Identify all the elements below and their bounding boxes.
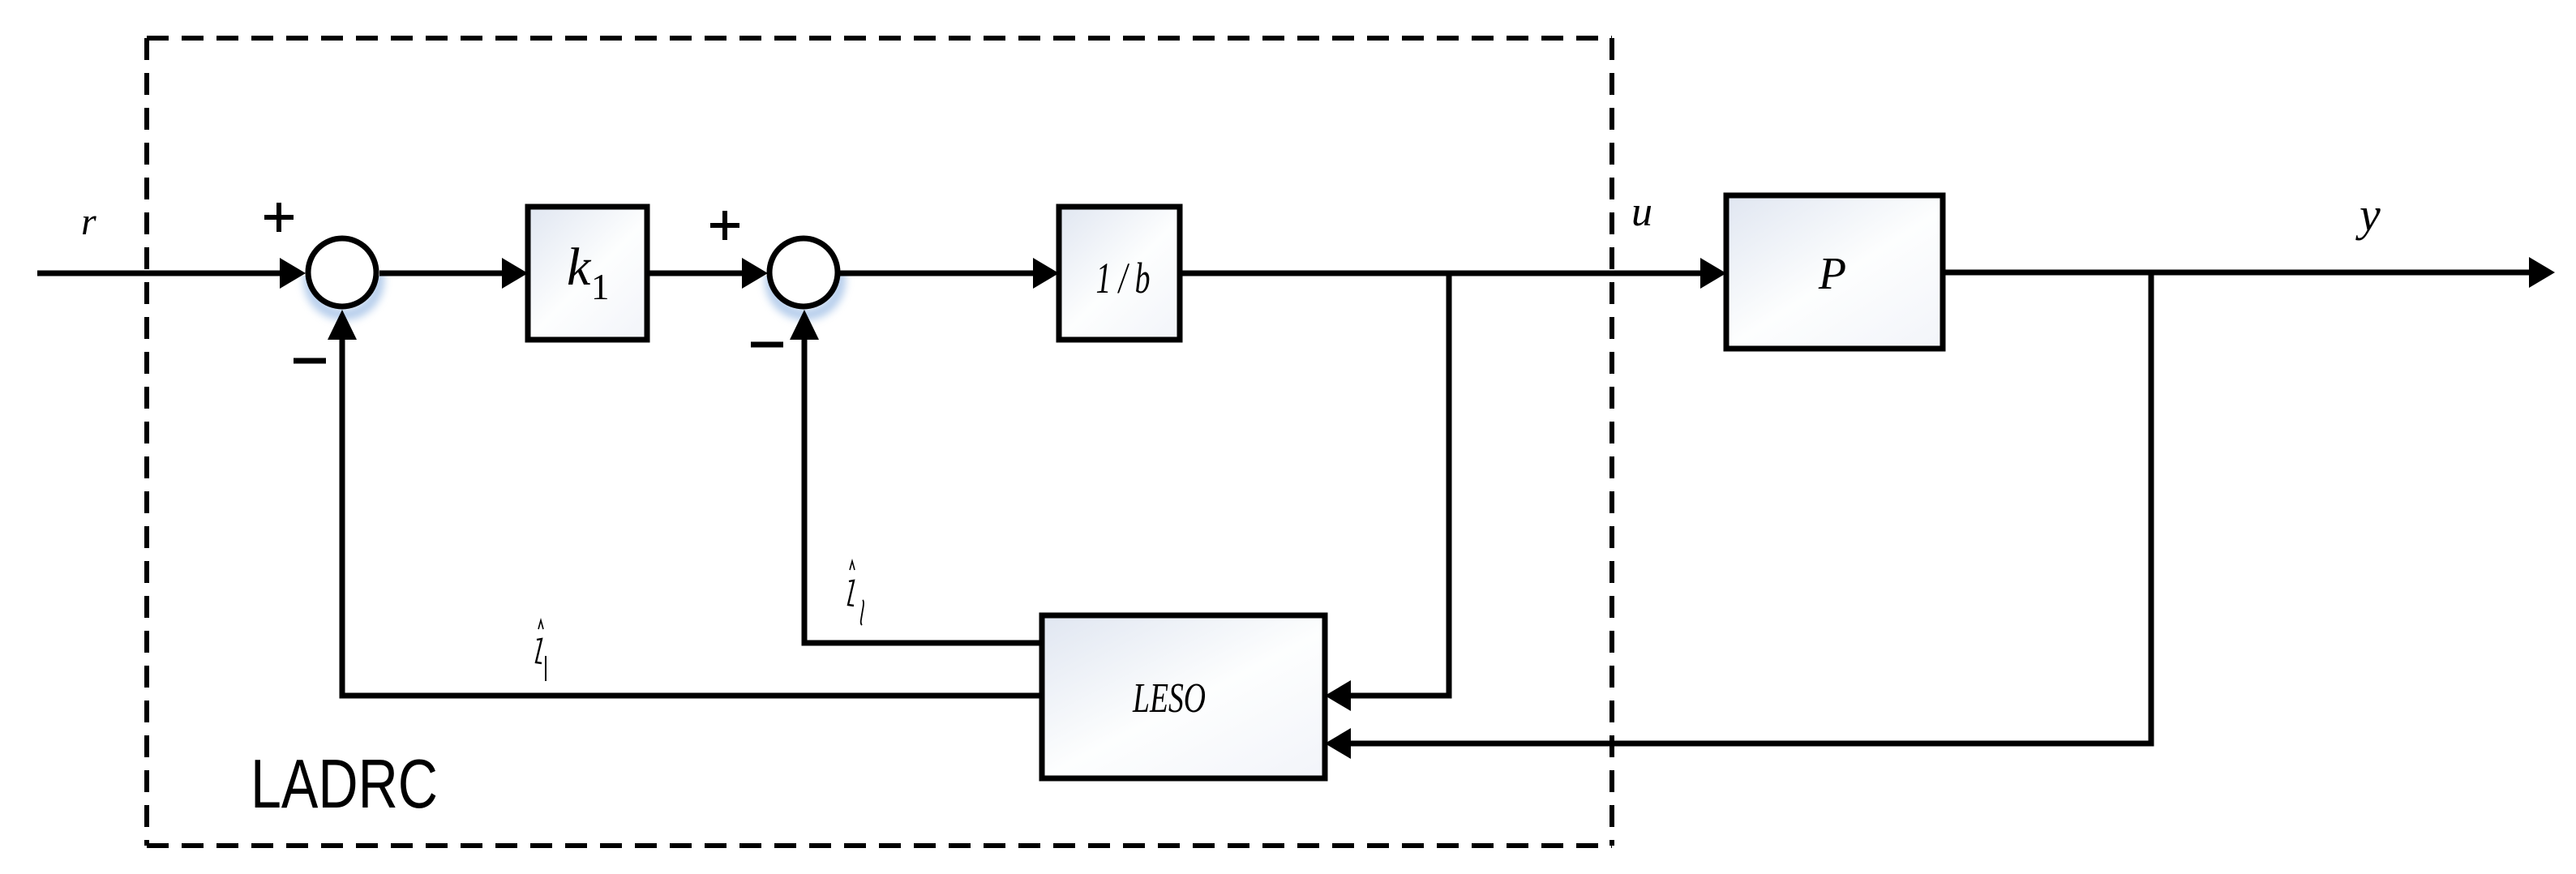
wire k1 to summing junction S2 [647,271,748,276]
block k1 [528,207,647,340]
svg-text:y: y [2355,188,2381,241]
svg-text:u: u [1631,189,1652,235]
plus sign at S2 [710,211,739,240]
arrowhead into P [1700,258,1726,289]
svg-text:1 / b: 1 / b [1096,254,1151,302]
label k1 [567,238,610,307]
arrowhead into 1/b [1033,258,1059,289]
wire r input to summing junction S1 [37,271,285,276]
arrowhead into S2 [742,258,768,289]
wire 1/b to P (node u) [1180,271,1706,276]
block LESO [1042,615,1325,778]
svg-text:LESO: LESO [1132,675,1206,722]
wire S2 to 1/b [840,271,1039,276]
shadow of summing junction S2 [770,245,840,315]
arrowhead z1 into S1 [328,310,357,340]
svg-text:P: P [1818,249,1846,299]
wire LESO z2 output to S2 [804,331,1042,643]
summing junction S2 [769,238,838,306]
label z1hat [536,620,546,681]
arrowhead u into LESO [1325,680,1351,711]
svg-text:1: 1 [591,267,610,307]
label z2hat [848,561,864,625]
block 1/b [1059,207,1180,340]
minus sign at S2 [751,342,783,348]
wire LESO z1 output to S1 [342,331,1042,696]
plus sign at S1 [264,203,294,232]
summing junction S1 [308,238,376,306]
arrowhead into k1 [502,258,528,289]
arrowhead into S1 [280,258,306,289]
svg-text:r: r [81,200,96,243]
arrowhead z2 into S2 [790,310,819,340]
block P [1726,195,1943,349]
LADRC dashed boundary box [147,38,1612,846]
wire y branch down to LESO [1346,272,2151,743]
arrowhead y into LESO [1325,728,1351,759]
svg-text:k: k [567,238,592,297]
wire S1 to k1 [379,271,507,276]
shadow of summing junction S1 [309,245,379,315]
wire u branch down to LESO [1346,273,1449,696]
wire P output to y [1943,270,2530,276]
arrowhead output y [2529,257,2555,288]
svg-text:LADRC: LADRC [251,746,438,823]
minus sign at S1 [294,358,326,364]
